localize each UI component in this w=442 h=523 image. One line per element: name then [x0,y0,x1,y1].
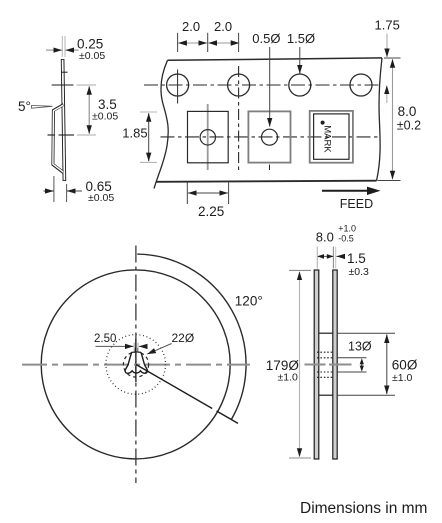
svg-text:MARK: MARK [322,125,333,153]
svg-text:0.5Ø: 0.5Ø [252,31,280,46]
svg-text:Dimensions in mm: Dimensions in mm [300,500,427,517]
dimension 2.0 / 2.0 [178,19,240,52]
reel horizontal centerline (grey) [22,364,250,366]
tape outline: top edge [168,58,383,60]
svg-text:22Ø: 22Ø [172,331,195,345]
dimension 8.0 +1.0/-0.5 [316,224,356,269]
svg-text:±1.0: ±1.0 [392,372,413,384]
dimension 13Ø [338,340,372,373]
left flange [314,270,319,459]
dimension 1.5Ø leader [287,31,315,73]
dimension 60Ø ±1.0 [338,333,418,395]
pocket 3 outer rim [310,111,353,163]
dimension 1.75 [375,18,400,104]
dimension 1.85 [122,112,157,162]
tick mark on strip [61,71,67,73]
carrier tape strip (edge-on, double line) [63,59,65,181]
pocket 1 vertical centerline (grey) [207,104,209,170]
svg-text:2.0: 2.0 [182,19,200,34]
dimension 0.25 ±0.05 [46,36,105,62]
120 degree boundary diagonal centerline [136,365,238,424]
svg-text:±0.2: ±0.2 [397,119,421,133]
sprocket hole row centerline [144,84,380,86]
svg-text:+1.0: +1.0 [338,224,356,234]
pocket 1 center hole [200,130,215,145]
dimension 2.50 [94,333,147,352]
dimension 0.5Ø leader [252,31,280,126]
svg-text:±0.05: ±0.05 [88,192,114,204]
svg-text:±0.3: ±0.3 [349,266,370,278]
sprocket hole 1 [167,74,189,96]
pocket centerline dashes [48,134,56,136]
tape outline: bottom edge [157,181,377,182]
hidden hub hole dotted lines [317,351,334,353]
svg-text:-0.5: -0.5 [338,234,354,244]
svg-text:60Ø: 60Ø [392,358,418,373]
hub dotted circle 22Ø [106,335,166,395]
svg-text:2.25: 2.25 [198,204,224,219]
dimension 0.65 ±0.05 [44,176,115,204]
dimension 2.25 [187,183,228,220]
svg-text:1.5Ø: 1.5Ø [287,31,315,46]
sprocket hole 3 [289,74,311,96]
tape outline: wavy right break edge [377,58,383,181]
pin-1 dot on component [321,121,325,125]
svg-text:±0.05: ±0.05 [79,50,105,62]
svg-text:1.5: 1.5 [347,251,366,266]
pocket 1 [188,111,229,162]
svg-text:120°: 120° [235,294,263,309]
sprocket hole 2 vertical dash-dot centerline [238,66,240,171]
extension line at sprocket centerline [52,84,74,86]
dimension 8.0 ±0.2 [378,58,422,181]
reel vertical centerline solid hub portion [135,339,137,382]
dimension 179Ø ±1.0 [266,270,311,458]
dimension 3.5 ±0.05 [89,86,118,134]
svg-text:±1.0: ±1.0 [278,372,299,384]
FEED arrow [322,187,381,211]
120 degree arc [137,254,246,420]
sprocket hole 4 [350,74,372,96]
hub top line [319,332,333,334]
svg-text:1.75: 1.75 [375,18,400,33]
tri-lobe hub hole bell [125,352,147,373]
svg-text:2.50: 2.50 [94,333,116,345]
pocket 3 component body [314,114,349,159]
right flange [333,270,337,459]
hub hole top tabs [132,351,136,353]
hub dashed circle [123,352,148,377]
dimension 22Ø leader [147,331,194,354]
svg-text:FEED: FEED [340,197,373,211]
svg-text:±0.05: ±0.05 [92,111,118,123]
pocket 2 [248,111,290,162]
svg-text:5°: 5° [18,99,31,114]
tape outline: wavy left break edge [154,60,168,188]
hub bottom line [319,394,333,396]
side view centerline (grey) [305,364,352,366]
sprocket hole 2 [228,74,250,96]
pocket row centerline [161,136,379,138]
svg-text:8.0: 8.0 [316,230,334,245]
pocket 2 small dash below [269,165,271,171]
dimension 1.5 ±0.3 [347,251,369,278]
sprocket hole 1 vertical centerline [177,70,179,104]
reel vertical centerline [135,246,137,484]
svg-text:1.85: 1.85 [122,126,147,141]
svg-text:2.0: 2.0 [214,19,232,34]
reel outer circle [41,270,230,459]
svg-text:13Ø: 13Ø [348,340,372,354]
embossed pocket bulge (double line) [53,105,64,173]
pocket 2 center hole [262,129,278,145]
hub hole key slot walls [134,348,136,352]
5 degree draft angle label [18,99,53,114]
svg-text:8.0: 8.0 [398,104,417,119]
